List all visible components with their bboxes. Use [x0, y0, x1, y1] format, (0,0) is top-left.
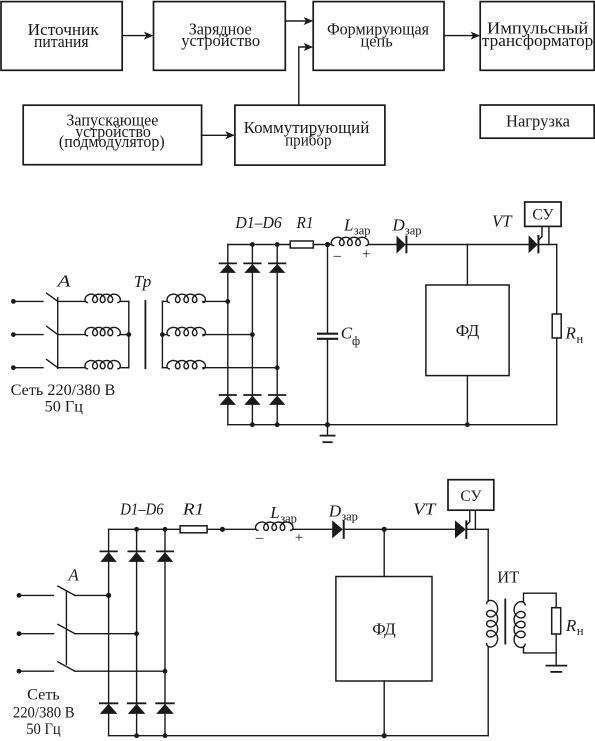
node leg3 bottom rail (bottom): [163, 733, 168, 738]
svg-text:прибор: прибор: [285, 131, 331, 150]
svg-text:ф: ф: [352, 334, 360, 348]
svg-text:D1–D6: D1–D6: [234, 213, 282, 232]
resistor Rn (bottom): [552, 608, 561, 634]
wire Cf branch lower (middle): [327, 339, 329, 425]
svg-text:зар: зар: [341, 510, 358, 524]
label Rn (bottom): [565, 616, 584, 638]
svg-text:зар: зар: [280, 511, 297, 525]
ground (middle): [321, 425, 335, 443]
svg-text:цепь: цепь: [361, 32, 393, 51]
node FD tap (bottom): [382, 527, 387, 532]
transformer IT core: [504, 600, 506, 644]
label Dzar (bottom): [328, 501, 358, 523]
svg-text:зар: зар: [405, 224, 422, 238]
svg-text:R: R: [565, 616, 577, 635]
diode D5 lower leg2: [244, 395, 260, 405]
node leg2 top rail (bottom): [134, 527, 139, 532]
svg-text:L: L: [343, 215, 353, 234]
block B1 Источник питания: [1, 2, 122, 71]
node FD bottom rail: [465, 422, 470, 427]
svg-text:L: L: [269, 503, 279, 522]
wire IT primary bottom to rail (bottom): [487, 647, 489, 736]
transformer IT secondary winding: [514, 602, 525, 648]
wire secondary row3 to bridge leg3: [203, 367, 277, 369]
wire R1 to Lzar (bottom): [207, 528, 255, 530]
svg-text:–: –: [332, 248, 341, 264]
wire secondary row2 to bridge leg2: [203, 334, 253, 336]
diode D4 lower leg1 (bottom): [100, 703, 118, 714]
diode D1 upper leg1: [220, 263, 236, 273]
svg-text:СУ: СУ: [532, 206, 553, 223]
transformer Tp secondary winding 3: [167, 361, 205, 369]
svg-text:D: D: [392, 215, 406, 234]
svg-text:VT: VT: [492, 212, 513, 231]
node leg3 bottom rail: [275, 422, 280, 427]
node phase3 on leg3: [275, 365, 280, 370]
svg-text:трансформатор: трансформатор: [482, 31, 593, 50]
inductor Lzar (bottom): [256, 522, 294, 530]
diode D2 upper leg2: [244, 263, 260, 273]
svg-text:Тр: Тр: [134, 272, 152, 291]
wire VT cathode to right branch (bottom): [466, 528, 488, 530]
diode D2 upper leg2 (bottom): [128, 551, 144, 562]
svg-text:+: +: [362, 246, 370, 262]
wire top rail bridge to R1 (middle): [228, 244, 290, 246]
transformer Tp primary winding 2: [85, 327, 120, 335]
thyristor VT (bottom): [455, 510, 470, 538]
block B4 Импульсный трансформатор: [480, 2, 594, 71]
label Cf (middle): [341, 324, 360, 348]
resistor R1 (bottom): [180, 526, 207, 533]
diode Dzar (bottom): [332, 520, 344, 538]
svg-text:+: +: [295, 530, 303, 546]
label Rn (middle): [565, 324, 584, 346]
node phase2 on leg2: [250, 332, 255, 337]
svg-text:зар: зар: [354, 224, 371, 238]
svg-text:VT: VT: [413, 500, 437, 519]
wire bridge leg1 (bottom): [108, 529, 110, 735]
diode D3 upper leg3: [269, 263, 285, 273]
switch A gang bar (middle): [57, 298, 59, 369]
resistor Rn (middle): [552, 314, 561, 338]
svg-text:Сеть: Сеть: [27, 686, 60, 704]
svg-text:СУ: СУ: [460, 488, 481, 505]
wire switch to primary coils (middle): [58, 301, 85, 367]
wire IT secondary top to Rn (bottom): [524, 593, 557, 608]
transformer Tp secondary winding 2: [167, 327, 205, 335]
wire B6 top to arrow into B3: [299, 43, 313, 105]
wire FD top stub (bottom): [383, 529, 385, 576]
node primary star point: [126, 332, 131, 337]
svg-text:C: C: [341, 324, 353, 343]
node Cf bottom rail: [325, 422, 330, 427]
svg-text:устройство: устройство: [181, 31, 260, 50]
node leg3 top rail (bottom): [163, 527, 168, 532]
wire primary star bus (middle): [121, 301, 129, 367]
node phase3 leg3 (bottom): [163, 669, 168, 674]
svg-text:R1: R1: [182, 500, 204, 519]
diode D1 upper leg1 (bottom): [100, 551, 116, 562]
diode D3 upper leg3 (bottom): [157, 551, 173, 562]
block FD (middle): [426, 285, 509, 376]
switch A blades (bottom): [58, 586, 75, 671]
svg-text:н: н: [577, 624, 584, 638]
node Cf tap (middle): [325, 242, 330, 247]
diode Dzar (middle): [397, 236, 407, 254]
block SU (bottom): [448, 480, 494, 511]
svg-text:ФД: ФД: [372, 619, 396, 638]
resistor R1 (middle): [290, 241, 313, 248]
svg-text:А: А: [56, 272, 71, 291]
svg-text:R: R: [565, 324, 577, 343]
wire FD bottom stub (bottom): [383, 681, 385, 736]
wire Dzar to VT anode (middle): [406, 244, 528, 246]
wire phase inputs (bottom): [19, 595, 54, 671]
node phase1 on leg1: [225, 299, 230, 304]
wire FD top stub (middle): [466, 245, 468, 286]
ground (bottom): [547, 653, 567, 672]
transformer Tp core: [144, 301, 146, 368]
svg-text:D1–D6: D1–D6: [119, 500, 164, 519]
arrow B3 to B4: [444, 32, 480, 40]
wire bridge leg2 (bottom): [136, 529, 138, 735]
node FD bottom rail (bottom): [382, 733, 387, 738]
node leg2 bottom rail: [250, 422, 255, 427]
svg-text:–: –: [255, 530, 264, 546]
switch A blades (middle): [47, 293, 58, 367]
wire Cf branch upper (middle): [327, 245, 329, 334]
wire right branch upper (middle): [556, 245, 558, 315]
arrow B5 to B6: [202, 131, 235, 139]
wire SU to cathode side (bottom): [474, 510, 476, 529]
node Cf tap (bottom): [220, 527, 225, 532]
block FD (bottom): [336, 577, 432, 682]
transformer IT primary winding: [487, 600, 498, 647]
diode D4 lower leg1: [220, 395, 236, 405]
svg-text:50 Гц: 50 Гц: [26, 720, 61, 738]
block B2 Зарядное устройство: [154, 2, 286, 71]
diode D5 lower leg2 (bottom): [128, 703, 146, 714]
switch A gang bar (bottom): [65, 592, 67, 665]
terminal dots 3-phase input (bottom): [17, 593, 22, 674]
wire Lzar to Dzar (middle): [368, 244, 396, 246]
capacitor Cf (middle): [318, 334, 337, 339]
svg-text:Нагрузка: Нагрузка: [506, 111, 571, 130]
svg-text:Сеть 220/380 В: Сеть 220/380 В: [11, 381, 116, 399]
diode D6 lower leg3 (bottom): [156, 703, 174, 714]
svg-text:50 Гц: 50 Гц: [45, 398, 84, 416]
wire secondary row1 to bridge leg1: [203, 300, 228, 302]
label Lzar (middle): [343, 215, 371, 237]
block B6 Коммутирующий прибор: [235, 105, 385, 165]
diode D6 lower leg3: [269, 395, 285, 405]
svg-text:D: D: [328, 501, 342, 520]
label Сеть 220/380 В 50 Гц (middle): [11, 381, 116, 416]
transformer Tp primary winding 1: [85, 294, 120, 302]
wire VT cathode to right branch (middle): [538, 244, 556, 246]
wire bridge leg1 (middle): [227, 245, 229, 425]
wire Lzar to Dzar (bottom): [293, 528, 332, 530]
label Dzar (middle): [392, 215, 422, 237]
svg-text:питания: питания: [34, 32, 89, 51]
inductor Lzar (middle): [331, 237, 368, 245]
block B7 Нагрузка: [480, 105, 594, 138]
thyristor VT (middle): [529, 226, 542, 253]
svg-text:н: н: [577, 332, 584, 346]
node leg2 bottom rail (bottom): [134, 733, 139, 738]
wire bottom rail (middle): [228, 424, 557, 426]
block B5 Запускающее устройство (подмодулятор): [23, 105, 201, 165]
node phase1 leg1 (bottom): [106, 593, 111, 598]
arrow B1 to B2: [122, 32, 153, 40]
wire right branch lower (middle): [556, 338, 558, 425]
wire right branch to IT primary (bottom): [487, 529, 489, 601]
wire bottom rail (bottom): [109, 735, 489, 737]
node leg3 top rail: [275, 242, 280, 247]
transformer Tp secondary winding 1: [167, 294, 205, 302]
svg-text:220/380 В: 220/380 В: [13, 704, 75, 722]
wire R1 to Lzar (middle): [313, 244, 331, 246]
wire bridge leg3 (middle): [276, 245, 278, 425]
wire secondary star bus (middle): [162, 301, 167, 367]
svg-text:(подмодулятор): (подмодулятор): [59, 132, 165, 151]
wire Rn bottom to IT secondary bottom: [524, 634, 557, 653]
label Сеть 220/380 В 50 Гц (bottom): [13, 686, 75, 738]
svg-text:А: А: [67, 565, 79, 584]
wire SU to cathode side (middle): [548, 226, 550, 244]
svg-text:ФД: ФД: [456, 321, 480, 340]
label Lzar (bottom): [269, 503, 297, 525]
node leg2 top rail: [250, 242, 255, 247]
arrow B2 to B3: [285, 17, 313, 25]
wire top rail to R1 (bottom): [109, 528, 181, 530]
wire phase inputs (middle): [13, 301, 43, 367]
node secondary star point: [160, 332, 165, 337]
wire bridge leg2 (middle): [251, 245, 253, 425]
block SU (middle): [525, 202, 561, 226]
transformer Tp primary winding 3: [85, 361, 120, 369]
wire FD bottom stub (middle): [466, 376, 468, 425]
wire switch to bridge legs (bottom): [75, 595, 165, 671]
svg-text:ИТ: ИТ: [497, 568, 519, 587]
wire Dzar to VT anode (bottom): [344, 528, 455, 530]
wire bridge leg3 (bottom): [164, 529, 166, 735]
svg-text:R1: R1: [296, 213, 314, 232]
node phase2 leg2 (bottom): [134, 631, 139, 636]
terminal dots 3-phase input (middle): [11, 299, 16, 370]
block B3 Формирующая цепь: [313, 2, 444, 71]
